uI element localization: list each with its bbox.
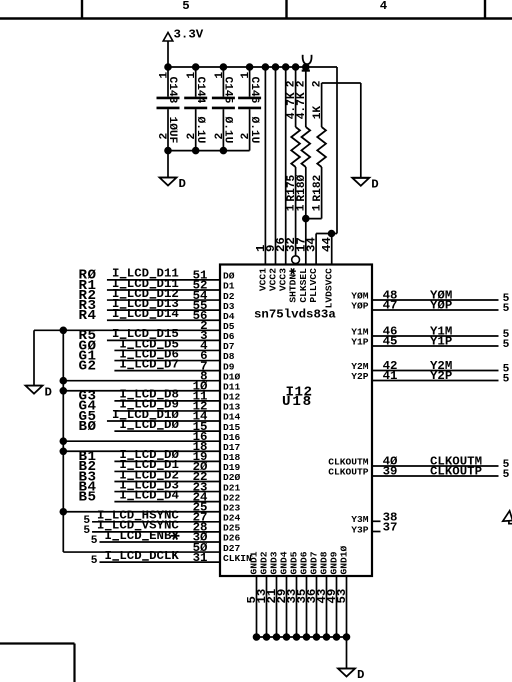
- svg-text:GND1Ø: GND1Ø: [339, 545, 350, 574]
- svg-text:CLKOUTP: CLKOUTP: [430, 465, 482, 479]
- svg-text:I LCD DCLK: I LCD DCLK: [105, 549, 180, 563]
- svg-text:D: D: [357, 668, 364, 682]
- svg-text:U18: U18: [282, 394, 313, 410]
- svg-text:53: 53: [335, 589, 349, 604]
- svg-text:LVDSVCC: LVDSVCC: [324, 268, 335, 309]
- svg-text:44: 44: [320, 237, 334, 252]
- svg-text:Y1P: Y1P: [351, 337, 369, 348]
- svg-text:R18Ø: R18Ø: [296, 174, 308, 201]
- svg-text:31: 31: [193, 551, 208, 565]
- svg-text:Y2P: Y2P: [351, 371, 369, 382]
- svg-text:G2: G2: [78, 358, 96, 374]
- svg-text:I LCD D7: I LCD D7: [119, 357, 178, 371]
- svg-text:CLKOUTP: CLKOUTP: [328, 467, 369, 478]
- svg-text:2: 2: [296, 80, 308, 87]
- svg-text:1: 1: [296, 204, 308, 211]
- svg-text:1ØUF: 1ØUF: [166, 117, 178, 144]
- svg-text:D: D: [179, 177, 186, 191]
- svg-text:D: D: [371, 178, 378, 192]
- svg-text:Ø.1U: Ø.1U: [194, 117, 206, 144]
- svg-text:YØP: YØP: [351, 301, 369, 312]
- svg-text:BØ: BØ: [78, 419, 96, 435]
- svg-text:C144: C144: [194, 77, 206, 104]
- svg-text:5: 5: [91, 535, 98, 547]
- svg-text:sn75lvds83a: sn75lvds83a: [254, 308, 336, 322]
- svg-text:41: 41: [383, 369, 398, 383]
- svg-text:5: 5: [503, 303, 510, 315]
- svg-text:4: 4: [380, 0, 388, 13]
- svg-text:I LCD DØ: I LCD DØ: [119, 418, 179, 432]
- svg-text:37: 37: [383, 521, 398, 535]
- svg-text:PLLVCC: PLLVCC: [308, 268, 319, 303]
- svg-text:1K: 1K: [312, 106, 324, 120]
- svg-text:Y3P: Y3P: [351, 524, 369, 535]
- svg-text:5: 5: [503, 339, 510, 351]
- svg-text:1: 1: [311, 204, 323, 211]
- svg-text:2: 2: [311, 80, 323, 87]
- svg-text:C143: C143: [166, 77, 178, 104]
- svg-text:5: 5: [503, 469, 510, 481]
- svg-text:YØP: YØP: [430, 299, 452, 313]
- svg-text:45: 45: [383, 335, 398, 349]
- svg-text:34: 34: [305, 237, 319, 252]
- svg-text:4.7K: 4.7K: [296, 92, 308, 119]
- svg-text:5: 5: [83, 525, 90, 537]
- svg-text:C145: C145: [222, 77, 234, 104]
- svg-text:I LCD D4: I LCD D4: [119, 488, 179, 502]
- svg-text:C146: C146: [248, 77, 260, 104]
- svg-text:39: 39: [383, 465, 398, 479]
- svg-text:D: D: [45, 385, 52, 399]
- svg-text:Y1P: Y1P: [430, 335, 452, 349]
- svg-text:Ø.1U: Ø.1U: [248, 117, 260, 144]
- svg-text:R4: R4: [78, 308, 96, 324]
- svg-text:47: 47: [383, 299, 398, 313]
- svg-text:I LCD ENB: I LCD ENB: [105, 529, 172, 543]
- svg-text:5: 5: [91, 555, 98, 567]
- svg-text:Y2P: Y2P: [430, 369, 452, 383]
- svg-text:B5: B5: [78, 489, 96, 505]
- svg-text:3.3V: 3.3V: [174, 28, 204, 42]
- svg-text:R182: R182: [312, 174, 324, 201]
- svg-text:I LCD D14: I LCD D14: [112, 307, 179, 321]
- svg-text:Ø.1U: Ø.1U: [222, 117, 234, 144]
- svg-text:5: 5: [182, 0, 189, 13]
- svg-text:5: 5: [503, 373, 510, 385]
